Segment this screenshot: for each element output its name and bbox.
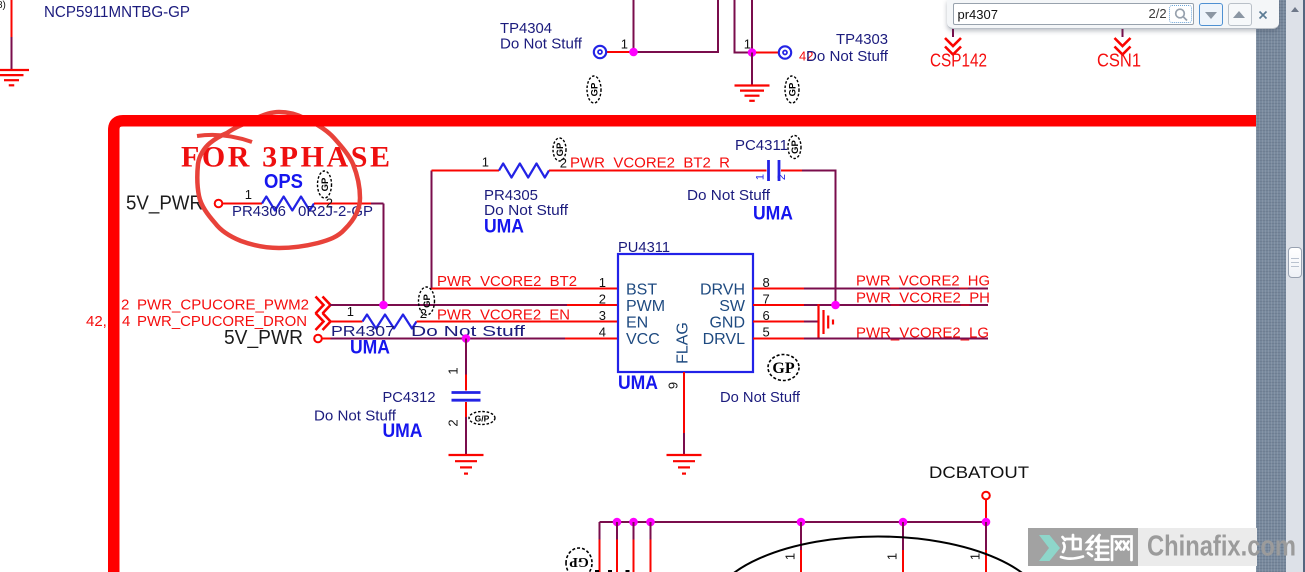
svg-text:GP: GP <box>320 177 331 191</box>
svg-text:UMA: UMA <box>350 338 390 359</box>
svg-text:PC4312: PC4312 <box>383 389 436 406</box>
svg-text:GP: GP <box>422 293 433 307</box>
svg-text:GP: GP <box>555 142 566 156</box>
svg-text:DRVH: DRVH <box>700 282 745 299</box>
svg-text:PWR_VCORE2_HG: PWR_VCORE2_HG <box>856 273 990 290</box>
svg-text:5V_PWR: 5V_PWR <box>224 327 303 349</box>
svg-text:PWR_VCORE2_PH: PWR_VCORE2_PH <box>856 290 990 307</box>
svg-text:PU4311: PU4311 <box>618 239 670 256</box>
svg-text:Do Not Stuff: Do Not Stuff <box>806 48 889 65</box>
svg-text:1: 1 <box>783 553 798 560</box>
svg-text:PWR_VCORE2_BT2_R: PWR_VCORE2_BT2_R <box>570 155 730 172</box>
svg-text:FOR 3PHASE: FOR 3PHASE <box>181 141 390 174</box>
svg-text:EN: EN <box>626 315 648 332</box>
svg-text:2: 2 <box>121 297 129 314</box>
svg-text:UMA: UMA <box>618 373 658 394</box>
svg-text:NCP5911MNTBG-GP: NCP5911MNTBG-GP <box>44 4 190 21</box>
svg-text:GP: GP <box>590 82 601 96</box>
svg-text:G/P: G/P <box>475 414 490 424</box>
svg-text:1: 1 <box>755 174 767 180</box>
svg-text:1: 1 <box>446 367 461 374</box>
svg-text:GP: GP <box>788 82 799 96</box>
svg-text:9: 9 <box>666 382 681 389</box>
svg-text:1: 1 <box>245 187 252 202</box>
svg-text:CSN1: CSN1 <box>1097 51 1141 71</box>
svg-text:PWR_VCORE2_EN: PWR_VCORE2_EN <box>437 307 570 324</box>
svg-text:4: 4 <box>599 325 606 340</box>
svg-text:PC4311: PC4311 <box>735 137 788 154</box>
svg-text:1: 1 <box>347 304 354 319</box>
svg-text:3: 3 <box>599 308 606 323</box>
svg-text:GP: GP <box>772 360 794 377</box>
svg-text:GP: GP <box>569 554 589 569</box>
svg-text:TP4304: TP4304 <box>500 20 552 37</box>
svg-text:CSP142: CSP142 <box>930 51 987 71</box>
svg-text:Do Not Stuff: Do Not Stuff <box>720 389 801 406</box>
svg-text:1: 1 <box>968 553 983 560</box>
svg-text:2: 2 <box>776 174 788 180</box>
svg-text:UMA: UMA <box>383 421 423 442</box>
svg-text:VCC: VCC <box>626 331 660 348</box>
svg-text:SW: SW <box>719 298 746 315</box>
svg-text:TP4303: TP4303 <box>836 31 888 48</box>
svg-text:5V_PWR: 5V_PWR <box>126 193 203 215</box>
svg-text:42,: 42, <box>86 313 107 330</box>
svg-text:OPS: OPS <box>264 171 303 193</box>
svg-text:DCBATOUT: DCBATOUT <box>929 463 1029 482</box>
svg-text:PR4306: PR4306 <box>232 203 286 220</box>
svg-text:2: 2 <box>446 419 461 426</box>
svg-text:PWM: PWM <box>626 298 665 315</box>
svg-text:PWR_VCORE2_BT2: PWR_VCORE2_BT2 <box>437 273 577 290</box>
svg-text:Chinafix.com: Chinafix.com <box>1147 531 1296 563</box>
svg-text:BST: BST <box>626 282 657 299</box>
svg-text:UMA: UMA <box>484 217 524 238</box>
svg-text:4: 4 <box>122 313 130 330</box>
svg-text:8): 8) <box>0 0 6 11</box>
svg-text:1: 1 <box>621 37 628 52</box>
svg-text:2: 2 <box>599 292 606 307</box>
svg-text:5: 5 <box>763 325 770 340</box>
svg-text:1: 1 <box>599 275 606 290</box>
svg-text:1: 1 <box>885 553 900 560</box>
svg-text:PWR_VCORE2_LG: PWR_VCORE2_LG <box>856 325 989 342</box>
svg-text:DRVL: DRVL <box>703 331 745 348</box>
svg-text:Do Not Stuff: Do Not Stuff <box>500 36 583 53</box>
svg-text:Do Not Stuff: Do Not Stuff <box>687 187 771 204</box>
svg-text:GND: GND <box>709 315 745 332</box>
svg-text:PWR_CPUCORE_PWM2: PWR_CPUCORE_PWM2 <box>137 297 309 314</box>
svg-text:1: 1 <box>482 155 489 170</box>
svg-text:GP: GP <box>790 139 801 153</box>
svg-text:1: 1 <box>744 37 751 52</box>
svg-text:UMA: UMA <box>753 204 793 225</box>
svg-text:FLAG: FLAG <box>675 322 692 364</box>
svg-text:0R2J-2-GP: 0R2J-2-GP <box>298 203 373 220</box>
